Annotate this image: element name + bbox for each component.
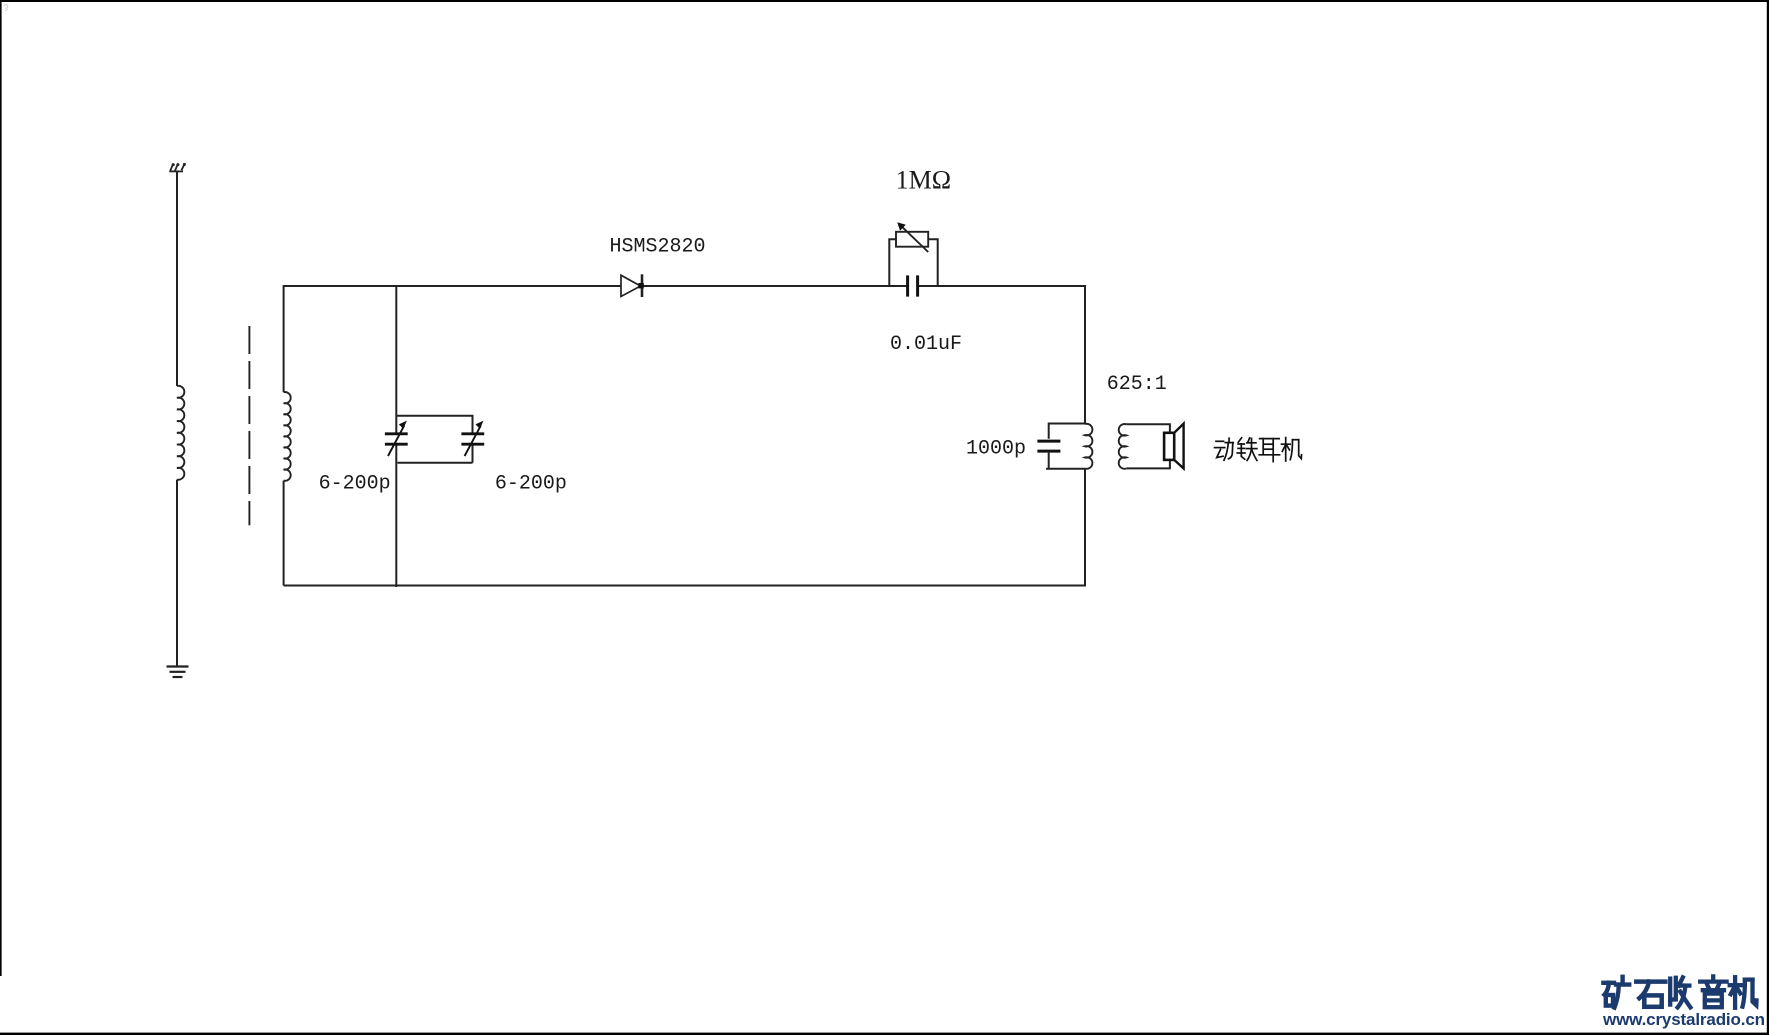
wire 1000p bottom stub [1046, 453, 1085, 469]
wire secondary bottom [1126, 461, 1170, 469]
variable capacitor C1 plates [385, 434, 408, 444]
dashed coupling line between L1 and L2 [248, 326, 250, 525]
label earphone type (CJK: dong tie er ji) [1215, 438, 1302, 462]
variable capacitor C2 plates [461, 434, 484, 444]
svg-text:6-200p: 6-200p [319, 473, 391, 496]
wire left edge lower [283, 481, 285, 586]
svg-text:www.crystalradio.cn: www.crystalradio.cn [1602, 1010, 1765, 1029]
wire middle vertical branch [395, 286, 397, 433]
transformer T1 secondary coil [1119, 424, 1127, 469]
svg-text:625:1: 625:1 [1107, 373, 1167, 396]
wire right edge upper [1084, 285, 1086, 424]
wire pot branch left [889, 239, 896, 286]
svg-text:0.01uF: 0.01uF [890, 333, 962, 356]
wire 1000p top stub [1049, 424, 1085, 439]
transformer T1 primary coil [1085, 424, 1092, 469]
diode D1 triangle [621, 275, 641, 296]
wire secondary top [1126, 424, 1170, 432]
capacitor C4 plates 1000p [1037, 441, 1060, 451]
diode D1 cathode bar [641, 274, 644, 297]
inductor tuning coil L2 [284, 392, 291, 481]
wire top (main horizontal) [284, 285, 621, 287]
wire var-cap loop [396, 416, 472, 463]
svg-text:1MΩ: 1MΩ [896, 166, 951, 195]
wire antenna lead-in [176, 171, 178, 386]
wire right edge lower [1084, 469, 1086, 587]
potentiometer R1 body [896, 232, 928, 247]
earphone horn [1174, 424, 1183, 469]
earphone driver rect [1164, 433, 1174, 460]
diode junction dot [638, 283, 643, 288]
wire pot branch right [928, 239, 938, 286]
capacitor C3 plates 0.01uF [908, 275, 918, 296]
variable capacitor C1 arrow [388, 426, 404, 456]
svg-text:1000p: 1000p [966, 438, 1026, 461]
inductor antenna coil L1 [177, 386, 184, 480]
antenna symbol [169, 164, 184, 172]
wire left edge upper [283, 285, 285, 392]
watermark logo kuang shi shou yin ji [1603, 976, 1756, 1007]
potentiometer R1 arrow [902, 226, 929, 252]
wire bottom (main horizontal) [284, 585, 1086, 587]
svg-text:HSMS2820: HSMS2820 [610, 236, 706, 259]
variable capacitor C2 arrow [465, 426, 481, 456]
ground [167, 667, 189, 678]
wire antenna to ground [176, 480, 178, 666]
svg-text:6-200p: 6-200p [495, 473, 567, 496]
